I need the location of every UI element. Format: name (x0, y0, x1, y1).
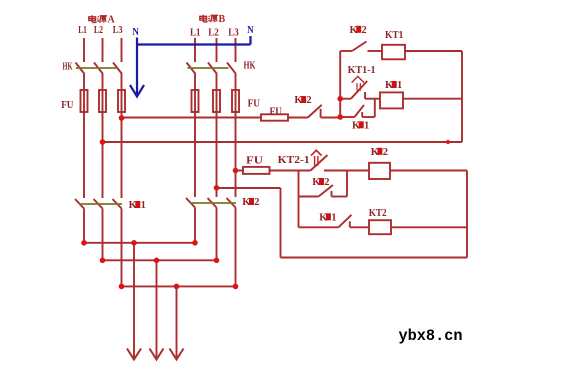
wire L1 phase B top stub (194, 38, 196, 62)
svg-text:KT1: KT1 (385, 30, 403, 41)
node L3A rail1 tap (119, 115, 125, 121)
contact KT1-1 delayed blade (351, 81, 367, 99)
svg-text:2: 2 (362, 25, 367, 36)
linkage bar HK B (188, 67, 229, 69)
wire L2 phase A top stub (102, 38, 104, 62)
wire bus H3 (122, 285, 236, 287)
neutral N arrowhead (130, 85, 144, 97)
wire KT2 coil to right rail (391, 226, 467, 228)
label B of 电源B (219, 14, 226, 25)
label KM1 coil (385, 80, 402, 91)
KM1 selfhold fixed tick (361, 112, 363, 117)
contact KM2 NC blade on rail1 (308, 105, 322, 118)
label KM2 main contacts (242, 197, 259, 208)
KM2 aux fixed tick (331, 191, 333, 197)
wire rail1 after fuse (288, 117, 308, 119)
svg-text:L1: L1 (78, 24, 87, 36)
label 电源B (200, 15, 218, 23)
label HK B (244, 61, 256, 72)
wire L3 phase A top stub (121, 38, 123, 62)
wire bus H1 (84, 242, 195, 244)
node bus H1 left (81, 240, 87, 246)
svg-text:B: B (219, 14, 226, 25)
label A of 电源A (108, 15, 116, 26)
label L1 B (190, 27, 201, 39)
label L2 A (94, 24, 104, 36)
wire L3 phase B top stub (235, 38, 237, 62)
svg-text:2: 2 (254, 197, 259, 208)
svg-text:2: 2 (324, 177, 329, 188)
wire to KT1 coil (368, 50, 383, 52)
switch HK blade B pole3 (227, 63, 236, 75)
wire rail1 to node (321, 117, 341, 119)
label FU A (61, 100, 73, 111)
wire bottom return rail (281, 257, 468, 259)
contact KT2-1 delayed blade (311, 155, 328, 171)
wire L3 phase A mid (121, 74, 123, 198)
wire L1 phase A top stub (83, 38, 85, 62)
svg-text:FU: FU (246, 156, 263, 167)
wire KM2 aux to riser (332, 196, 348, 198)
wire B pole1 lower (194, 208, 196, 243)
fuse FU B3 (232, 90, 239, 112)
node rail2 small (446, 140, 450, 144)
svg-text:L3: L3 (113, 24, 123, 36)
switch HK blade A pole2 (94, 63, 103, 75)
wire KM2 coil to right rail (390, 170, 467, 172)
wire return riser (280, 188, 282, 258)
contact KM2 NC stop tick (320, 109, 322, 118)
fuse FU A1 (81, 90, 88, 112)
neutral N line B vertical (249, 36, 251, 45)
label KM1 NC lower (319, 212, 336, 223)
label N of source B (247, 24, 253, 36)
label L3 B (228, 27, 239, 39)
svg-text:2: 2 (383, 147, 388, 158)
arrowhead output 1 (127, 349, 141, 360)
label HK A (63, 61, 73, 72)
label FU B (248, 99, 260, 110)
fuse FU A3 (118, 90, 125, 112)
svg-text:HK: HK (244, 61, 256, 72)
wire KT1-1 branch start (340, 98, 351, 100)
fuse FU A2 (99, 90, 106, 112)
label KT2 (369, 208, 387, 219)
svg-text:L1: L1 (190, 27, 201, 39)
KT2-1 delay arrow chevron (311, 150, 322, 155)
neutral N horizontal link (137, 43, 251, 45)
label KT1-1 (348, 65, 376, 76)
switch HK blade B pole1 (187, 63, 196, 75)
svg-text:HK: HK (63, 61, 73, 72)
label KM2 rail1 (294, 95, 311, 106)
svg-text:KT2: KT2 (369, 208, 387, 219)
svg-text:FU: FU (270, 106, 283, 117)
label FU rail3 (246, 156, 263, 167)
fuse FU control lower (243, 167, 270, 174)
node bus H2 mid (154, 258, 160, 264)
watermark ybx8.cn (399, 327, 463, 345)
node control rail upper (337, 96, 343, 102)
wire into KM1 coil (375, 98, 380, 100)
svg-text:ybx8.cn: ybx8.cn (399, 327, 463, 345)
KT1-1 fixed tick (364, 92, 366, 99)
node bus H2 left (100, 258, 106, 264)
svg-text:L2: L2 (208, 27, 219, 39)
wire L3 phase B mid (235, 74, 237, 197)
contactor KM2 main blade pole2 (208, 198, 217, 208)
label KM1 main contacts (129, 200, 146, 211)
fuse FU control upper (261, 114, 288, 120)
node L3B rail3 tap (233, 168, 239, 174)
node L2A rail2 tap (100, 139, 106, 145)
wire KM2 aux branch start (299, 196, 319, 198)
node bus H3 right (233, 284, 239, 290)
wire A pole2 lower (102, 209, 104, 261)
linkage bar KM1 main (79, 203, 122, 205)
node bus H2 right (214, 258, 220, 264)
wire control rail2 from L2A (103, 141, 463, 143)
label L3 A (113, 24, 123, 36)
wire riser KM2 aux right (346, 171, 348, 197)
KM1 NC fixed tick lower (349, 221, 351, 227)
wire load output 2 (156, 260, 158, 358)
coil KM1 (380, 92, 403, 108)
wire L2 phase B top stub (216, 38, 218, 62)
contactor KM2 main blade pole3 (227, 198, 236, 208)
wire right rail upper circuit (461, 51, 463, 142)
svg-text:N: N (132, 26, 139, 38)
wire KM1 selfhold start (340, 116, 354, 118)
contact KM1 NC blade lower (339, 215, 352, 228)
wire L2 phase A mid (102, 74, 104, 198)
wire B pole2 lower (216, 208, 218, 261)
contactor KM1 main blade pole2 (94, 199, 103, 209)
node bus H3 left (119, 284, 125, 290)
svg-text:1: 1 (141, 200, 146, 211)
svg-text:L3: L3 (228, 27, 239, 39)
wire riser parallel branch left (298, 171, 300, 228)
svg-text:1: 1 (397, 80, 402, 91)
wire KM1 NC branch start (299, 226, 339, 228)
wire KM1 coil to right rail (403, 98, 462, 100)
wire load output 3 (176, 286, 178, 358)
wire L2 phase B mid (216, 74, 218, 197)
label 电源A (89, 15, 107, 23)
wire rail3 after fuse (270, 170, 311, 172)
coil KT2 (369, 220, 391, 234)
label KM2 top branch (350, 25, 367, 36)
wire B pole3 lower (235, 208, 237, 287)
wire return to L2B (217, 187, 281, 189)
label KM1 selfhold (352, 120, 369, 131)
arrowhead output 2 (150, 349, 164, 360)
svg-text:FU: FU (61, 100, 73, 111)
fuse FU B1 (192, 90, 199, 112)
switch HK blade B pole2 (208, 63, 217, 75)
svg-text:KT2-1: KT2-1 (278, 155, 310, 166)
wire control rail3 from L3B (236, 170, 244, 172)
wire load output 1 (133, 243, 135, 359)
wire A pole3 lower (121, 209, 123, 287)
label KT1 (385, 30, 403, 41)
label KM2 coil (371, 147, 388, 158)
node L2B return tap (214, 185, 220, 191)
label L1 A (78, 24, 87, 36)
linkage bar KM2 main (190, 202, 236, 204)
node bus H1 mid (131, 240, 137, 246)
contactor KM1 main blade pole3 (113, 199, 122, 209)
contact KM1 selfhold blade (355, 105, 365, 117)
coil KT1 (382, 45, 405, 60)
KT1-1 delay arrow shaft (357, 83, 360, 91)
wire junction vertical before KM1 coil (374, 99, 376, 117)
wire control rail1 from L3A (122, 117, 262, 119)
contact KM2 aux blade (319, 185, 334, 197)
svg-text:N: N (247, 24, 253, 36)
wire bus H2 (103, 259, 217, 261)
fuse FU B2 (213, 90, 220, 112)
contactor KM2 main blade pole1 (186, 198, 195, 208)
wire to KT2 coil (350, 226, 369, 228)
wire control left rail vertical (339, 51, 341, 118)
KT1-1 delay arrow chevron (352, 76, 364, 82)
contact KM2 NO blade top branch (352, 42, 367, 52)
label KM2 aux (312, 177, 329, 188)
KT2-1 delay arrow shaft (315, 156, 318, 166)
wire A pole1 lower (83, 209, 85, 243)
wire L1 phase B mid (194, 74, 196, 197)
wire right rail lower circuit (466, 171, 468, 258)
coil KM2 (369, 163, 390, 179)
wire KT1 coil to right rail (405, 50, 462, 52)
contactor KM1 main blade pole1 (75, 199, 84, 209)
neutral N line A vertical (136, 38, 138, 96)
svg-text:2: 2 (306, 95, 311, 106)
switch HK blade A pole3 (113, 63, 122, 75)
svg-text:1: 1 (331, 212, 336, 223)
node bus H1 right (192, 240, 198, 246)
arrowhead output 3 (170, 349, 184, 360)
svg-text:L2: L2 (94, 24, 104, 36)
wire selfhold to junction (362, 116, 375, 118)
wire KT1 branch start (340, 50, 352, 52)
switch HK blade A pole1 (76, 63, 85, 75)
node bus H3 mid (174, 284, 180, 290)
svg-text:KT1-1: KT1-1 (348, 65, 376, 76)
label N of source A (132, 26, 139, 38)
wire rail3 to KM2 coil (324, 170, 369, 172)
linkage bar HK A (76, 67, 117, 69)
wire L1 phase A mid (83, 74, 85, 198)
label FU rail1 (270, 106, 283, 117)
node control rail lower (337, 114, 343, 120)
label KT2-1 (278, 155, 310, 166)
wire KT1-1 to junction (365, 98, 375, 100)
label L2 B (208, 27, 219, 39)
svg-text:FU: FU (248, 99, 260, 110)
svg-text:1: 1 (364, 120, 369, 131)
